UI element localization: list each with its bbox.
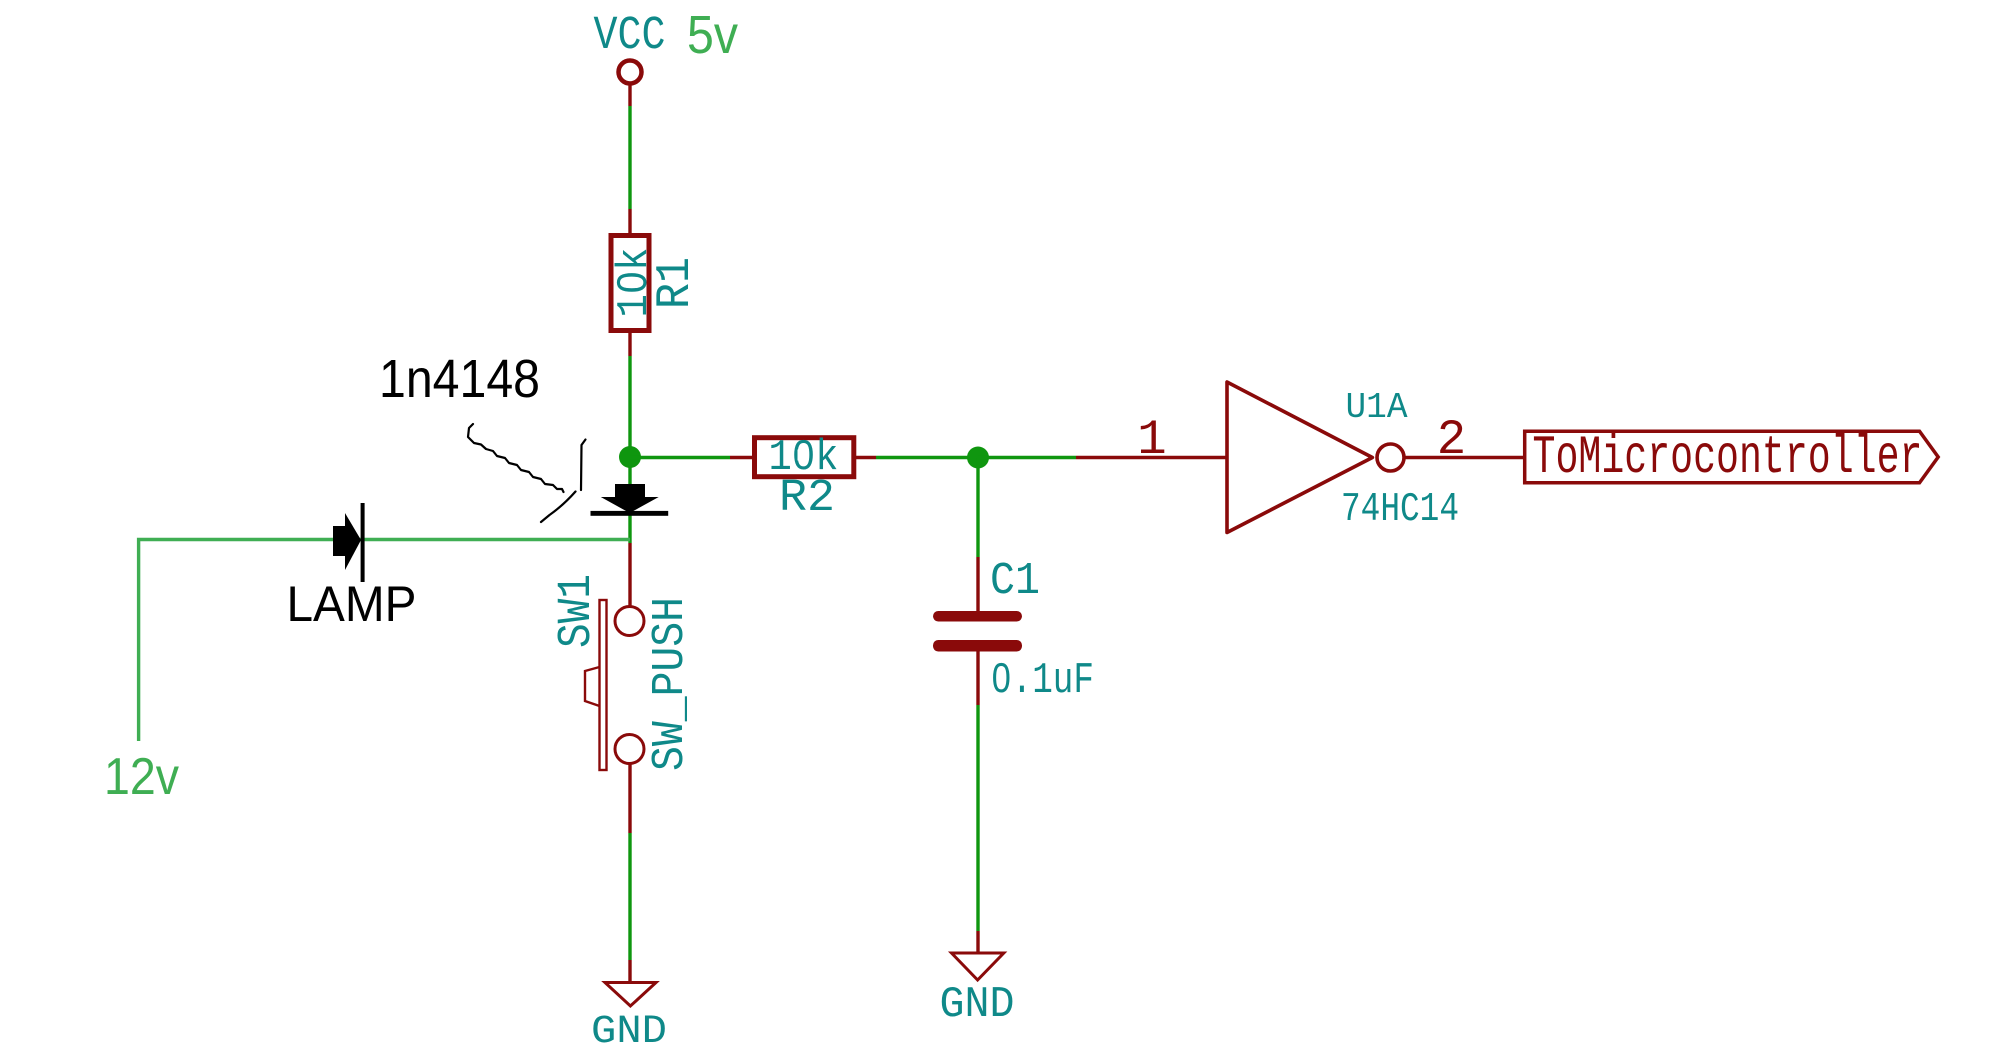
svg-text:SW_PUSH: SW_PUSH xyxy=(645,597,696,771)
svg-text:LAMP: LAMP xyxy=(287,576,417,632)
pin SW1 top xyxy=(628,543,631,607)
wire node A down to switch xyxy=(628,457,631,543)
zero dot patch C1 value xyxy=(999,672,1006,682)
wire node B to C1 xyxy=(976,458,979,558)
capacitor C1 xyxy=(933,611,1022,652)
svg-text:0.1uF: 0.1uF xyxy=(991,657,1094,706)
power flag VCC xyxy=(619,61,642,84)
pin R1 bottom xyxy=(628,333,631,356)
svg-text:2: 2 xyxy=(1437,412,1466,468)
svg-text:ToMicrocontroller: ToMicrocontroller xyxy=(1533,428,1923,489)
svg-text:U1A: U1A xyxy=(1346,387,1408,428)
annotation callout squiggle C xyxy=(541,492,576,523)
pin GND (C1) xyxy=(976,931,979,953)
pin 1 wire U1A input xyxy=(1076,456,1227,459)
wire R1 to node A xyxy=(628,356,631,457)
annotation callout squiggle B xyxy=(581,440,586,491)
inverter U1A xyxy=(1227,382,1372,533)
zero dot patch R1 value xyxy=(627,277,638,288)
wire C1 to GND xyxy=(976,705,979,931)
resistor R2 xyxy=(755,438,854,477)
pin C1 bottom xyxy=(976,652,979,706)
svg-text:12v: 12v xyxy=(104,748,179,806)
pin C1 top xyxy=(976,557,979,611)
svg-text:R2: R2 xyxy=(779,473,835,524)
svg-text:74HC14: 74HC14 xyxy=(1341,487,1459,533)
junction node B xyxy=(967,447,989,469)
svg-text:R1: R1 xyxy=(649,257,703,309)
svg-text:GND: GND xyxy=(591,1010,667,1050)
pin VCC xyxy=(628,84,631,107)
annotation diode 1n4148 symbol xyxy=(591,484,669,516)
svg-text:5v: 5v xyxy=(687,5,738,65)
svg-text:1n4148: 1n4148 xyxy=(379,349,540,409)
annotation LAMP diode xyxy=(333,503,365,582)
U1A output bubble xyxy=(1377,444,1404,471)
hierarchical label ToMicrocontroller xyxy=(1525,431,1939,483)
svg-text:SW1: SW1 xyxy=(551,574,604,648)
wire R2 to node B xyxy=(876,456,978,459)
switch SW1 body xyxy=(585,600,644,770)
junction node A xyxy=(619,446,641,468)
annotation wire 12v xyxy=(139,540,630,742)
resistor R1 xyxy=(611,236,649,331)
wire node A to R2 xyxy=(630,456,730,459)
zero dot patch R2 value xyxy=(798,450,809,461)
pin 2 wire U1A output xyxy=(1404,456,1523,459)
svg-text:1: 1 xyxy=(1137,412,1166,468)
pin R2 left xyxy=(730,456,752,459)
wire node B to U1 xyxy=(978,456,1076,459)
pin SW1 bottom xyxy=(628,764,631,834)
svg-text:GND: GND xyxy=(940,981,1015,1030)
ground GND (C1) xyxy=(952,953,1004,980)
wire SW1 to GND xyxy=(628,833,631,960)
svg-text:VCC: VCC xyxy=(594,10,666,63)
pin GND (switch) xyxy=(628,960,631,983)
annotation callout squiggle A xyxy=(468,424,564,492)
pin R2 right xyxy=(856,456,876,459)
svg-text:C1: C1 xyxy=(990,556,1040,607)
wire VCC to R1 xyxy=(628,106,631,209)
ground GND (switch) xyxy=(605,983,656,1007)
pin R1 top xyxy=(628,209,631,233)
